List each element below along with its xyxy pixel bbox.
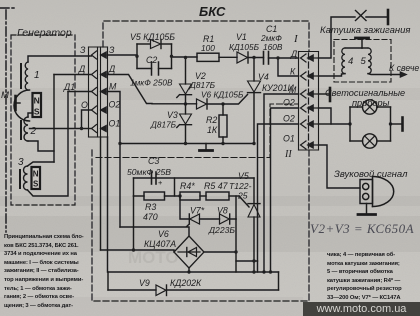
wire C1 to Д pin, branch to К pin	[269, 56, 299, 76]
svg-text:К: К	[290, 67, 296, 77]
svg-text:М: М	[1, 90, 9, 101]
svg-text:V3: V3	[167, 110, 178, 120]
thyristor V4 КУ201И	[223, 56, 294, 144]
svg-text:Генератор: Генератор	[17, 27, 72, 39]
svg-text:100: 100	[201, 43, 215, 53]
wire: О2 drop into block II	[100, 137, 102, 250]
generator dashed box	[11, 35, 75, 205]
svg-text:V5 КД105Б: V5 КД105Б	[130, 32, 175, 42]
svg-text:V1: V1	[236, 32, 247, 42]
svg-text:Катушка зажигания: Катушка зажигания	[320, 25, 411, 36]
wire V1 to C1	[248, 57, 264, 59]
svg-text:Звуковой сигнал: Звуковой сигнал	[334, 169, 408, 180]
wire: secondary to spark plug	[368, 63, 419, 78]
zener V7* КС147А	[180, 196, 220, 227]
svg-text:3: 3	[18, 157, 24, 168]
wire: М row to bus riser	[108, 92, 122, 228]
svg-text:V4: V4	[258, 72, 269, 82]
svg-text:Д: Д	[108, 64, 115, 74]
wire: О2b row to regulator node	[258, 124, 299, 272]
bridge right connection	[204, 250, 238, 253]
svg-text:160В: 160В	[263, 42, 283, 52]
C3/R3 side rails	[134, 178, 175, 196]
wire: О2 pins to lamps	[319, 108, 352, 126]
svg-text:С3: С3	[148, 156, 159, 166]
svg-text:КЦ407А: КЦ407А	[144, 239, 176, 249]
svg-text:Д817Б: Д817Б	[150, 120, 177, 130]
winding 3 (sensor) with magnet	[18, 157, 40, 190]
svg-text:С2: С2	[146, 55, 157, 65]
svg-text:+: +	[158, 178, 163, 187]
lamp 2	[363, 134, 377, 148]
svg-text:V9: V9	[139, 278, 150, 288]
wire: winding2 tap to О contacts	[30, 128, 82, 130]
svg-text:4: 4	[348, 56, 353, 67]
svg-text:V2+V3 = КС650А: V2+V3 = КС650А	[310, 221, 414, 236]
svg-text:V6 КД105Б: V6 КД105Б	[201, 90, 244, 100]
lamps to chassis	[389, 118, 403, 131]
capacitor C3 50мкФ 25В (electrolytic)	[127, 156, 171, 187]
resistor R4*	[178, 181, 206, 200]
svg-text:50мкФ 25В: 50мкФ 25В	[127, 167, 171, 177]
bottom wire H2 with V9	[108, 272, 279, 296]
left connector pin labels generator side	[63, 45, 88, 110]
svg-text:II: II	[284, 149, 292, 160]
resistor R2 1К	[206, 102, 227, 143]
wire: Д pin to ignition switch	[319, 17, 356, 58]
svg-text:V6: V6	[158, 229, 169, 239]
svg-text:Светосигнальные: Светосигнальные	[325, 88, 405, 98]
lower bus H1	[108, 268, 279, 274]
svg-text:Д223Б: Д223Б	[208, 225, 235, 235]
svg-text:R5 47: R5 47	[204, 181, 229, 191]
page frame (dash-dot magazine border, left edge)	[0, 8, 16, 232]
svg-text:R4*: R4*	[180, 181, 195, 191]
caption right column	[327, 251, 409, 303]
diode V6 КД105Б (gate feed)	[152, 90, 244, 110]
svg-text:О1: О1	[283, 134, 295, 144]
svg-text:1К: 1К	[207, 125, 218, 135]
left connector pin labels БКС side	[108, 45, 120, 129]
right connector X2 (БКС to harness)	[299, 52, 319, 151]
svg-text:R2: R2	[206, 115, 217, 125]
svg-text:N: N	[34, 96, 40, 106]
caption left column	[4, 233, 78, 310]
thyristor V5 Т122-25 (block II)	[229, 171, 260, 272]
left connector X1 (generator to БКС)	[89, 47, 108, 137]
svg-text:470: 470	[143, 212, 158, 222]
wire R1 to V1	[219, 56, 237, 58]
svg-text:S: S	[33, 180, 39, 189]
V5/C2 parallel loop frame	[137, 44, 172, 69]
svg-text:О2: О2	[283, 114, 295, 124]
svg-text:М: М	[289, 85, 297, 95]
watermark bar www.moto.com.ua	[303, 302, 420, 316]
svg-text:М: М	[109, 82, 117, 92]
rectifier bridge V6 КЦ407А	[144, 229, 204, 268]
ignition coil common top terminal	[356, 38, 369, 48]
resistor R3 470	[134, 192, 181, 222]
svg-text:1: 1	[34, 70, 40, 81]
svg-text:Д: Д	[78, 64, 85, 74]
winding 5 (secondary)	[361, 48, 372, 74]
wire: winding3 top	[28, 162, 55, 166]
wire: О1 drop into block II	[107, 137, 109, 272]
wire: Д1 row	[68, 91, 92, 93]
chassis ground on М bus	[200, 144, 213, 151]
diode V9 КД202К labels	[139, 278, 202, 288]
block divider I/II (dashed)	[96, 104, 298, 158]
svg-text:О2: О2	[109, 100, 121, 110]
terminal M	[1, 90, 20, 110]
svg-text:О2: О2	[283, 98, 295, 108]
capacitor C2	[130, 55, 173, 88]
svg-text:О1: О1	[109, 119, 121, 129]
winding 4 (primary)	[342, 48, 362, 74]
wire: З row into V5/C2 tank	[108, 55, 138, 56]
handwritten note V2+V3 = КС650А	[310, 221, 414, 236]
ignition switch	[356, 10, 389, 24]
winding 1 (ignition)	[21, 56, 89, 90]
ignition coil dashed box	[334, 40, 391, 83]
lamp rails	[350, 107, 391, 141]
right connector pin labels	[283, 49, 297, 144]
wire: О1 pin to horn	[319, 145, 361, 188]
bridge left connection to О2 line and R3 rail	[101, 196, 175, 252]
wire: V8 node risers	[236, 196, 258, 272]
svg-text:З: З	[109, 45, 115, 55]
wire: О2a row down to H1	[269, 108, 299, 274]
svg-text:К свече: К свече	[389, 63, 419, 73]
zener V2 Д817Б	[177, 56, 216, 114]
label Светосигнальные приборы	[325, 88, 405, 108]
wire: Д row (БКС side) diagonal to gate line	[108, 75, 153, 104]
winding 2 (lighting)	[21, 113, 37, 141]
capacitor C1 2мкФ 160В	[260, 24, 283, 64]
svg-text:R3: R3	[145, 202, 156, 212]
wire: О bracket feeding О2/О1	[80, 110, 92, 130]
wire: З row	[89, 55, 92, 57]
zener V3 Д817Б	[150, 110, 192, 144]
connector contacts left (open + filled pairs)	[92, 51, 107, 133]
svg-text:О: О	[81, 100, 88, 110]
lamp 1	[363, 100, 377, 114]
wire: main HT line	[172, 56, 198, 57]
right connector contacts	[301, 54, 319, 149]
diode V8 Д223Б	[208, 206, 236, 236]
diode V1 КД105Б	[229, 32, 260, 63]
svg-text:V5: V5	[238, 171, 249, 181]
БКС dashed enclosure	[92, 21, 309, 301]
svg-text:S: S	[34, 107, 40, 117]
svg-text:МОТО: МОТО	[128, 248, 179, 267]
svg-text:2: 2	[30, 126, 37, 137]
resistor R5 47	[204, 181, 239, 200]
wire: Д row	[54, 74, 92, 76]
block II top rail	[134, 177, 255, 179]
wire: winding2 bottom hook	[28, 141, 54, 162]
wire: К pin to primary	[319, 74, 346, 76]
svg-text:КД202К: КД202К	[170, 278, 202, 288]
rotor magnet (arc with N/S)	[14, 90, 41, 121]
svg-text:Д817Б: Д817Б	[189, 80, 216, 90]
wire: generator Д lead down	[53, 75, 55, 152]
horn	[358, 177, 394, 215]
svg-text:З: З	[80, 45, 86, 55]
svg-text:Д: Д	[290, 49, 297, 59]
svg-text:N: N	[33, 170, 39, 179]
svg-text:Д1: Д1	[63, 82, 75, 92]
bridge top connection to М line	[120, 227, 189, 236]
wire: М pin to chassis	[319, 88, 331, 101]
diode V5 КД105Б	[130, 32, 175, 49]
svg-text:КД105Б: КД105Б	[229, 42, 260, 52]
svg-text:V7*: V7*	[190, 206, 205, 216]
svg-text:5: 5	[361, 56, 367, 67]
М bus of block I	[120, 142, 256, 145]
svg-text:Т122-: Т122-	[229, 181, 252, 191]
wire: winding3 bottom to Д1 riser	[28, 92, 69, 197]
svg-text:25: 25	[237, 191, 248, 201]
wire: М row (right) down to H1	[264, 94, 299, 272]
resistor R1 100	[197, 34, 219, 61]
svg-text:БКС: БКС	[199, 4, 226, 19]
svg-text:V8: V8	[217, 206, 228, 216]
